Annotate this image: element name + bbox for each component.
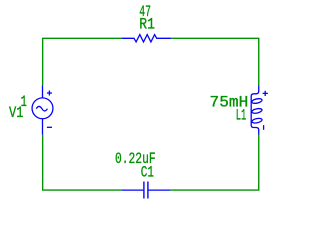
source circle [32,98,53,119]
svg-text:V1: V1 [9,104,24,122]
resistor R1 [122,35,171,42]
plate left [143,182,145,199]
minus mark (rotated) [263,125,265,130]
sine wave [36,106,47,111]
wire bottom-left: capacitor to bottom-left corner up to source [43,135,122,191]
svg-text:R1: R1 [139,16,155,34]
wire right-bottom: inductor to bottom-right corner to capacitor [170,135,259,191]
svg-text:C1: C1 [141,164,154,182]
plus mark [263,91,268,96]
coil loop 1 [251,98,262,104]
plus mark [47,91,52,96]
wire left-top: source to top-left corner to resistor [43,38,122,85]
coil loop 2 [251,108,262,114]
voltage source V1 [32,85,53,134]
pin and body outline [251,85,259,134]
capacitor C1 [122,182,170,199]
coil loop 3 [251,118,262,124]
svg-text:L1: L1 [236,107,247,125]
inductor L1 [251,85,268,134]
pin bottom [42,119,44,135]
wire top-right: resistor to corner down to inductor [171,38,259,85]
minus mark [47,126,52,128]
leads [122,189,170,191]
pin top [42,85,44,97]
plate right [147,182,149,199]
